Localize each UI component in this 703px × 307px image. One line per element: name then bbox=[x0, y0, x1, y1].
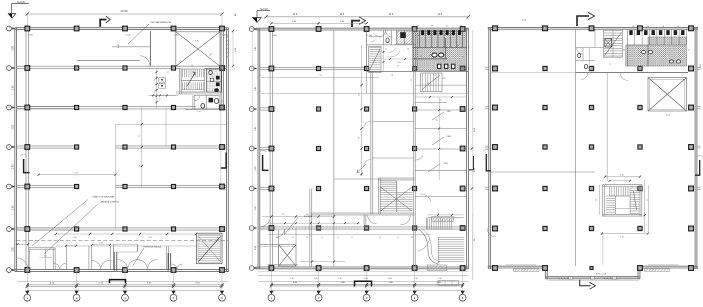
plan 3 central stair left run treads bbox=[606, 195, 615, 197]
svg-text:1.2: 1.2 bbox=[321, 237, 323, 239]
svg-text:3.85: 3.85 bbox=[12, 124, 14, 129]
plan 1 bottom door arcs pair5 bbox=[172, 264, 178, 270]
plan 1 bathroom fixtures bbox=[216, 76, 220, 80]
plan 3 wall stubs left bbox=[485, 67, 489, 69]
plan 2 interior door arcs bottom bbox=[487, 228, 496, 237]
plan 2 entry arrow top bbox=[352, 21, 360, 27]
plan 3 entry arrow top bbox=[577, 16, 589, 26]
svg-text:OFIC.: OFIC. bbox=[443, 163, 449, 165]
plan 2 corridor wall under toilets bbox=[367, 70, 469, 72]
plan 2 lower-left door arc bbox=[276, 230, 284, 238]
plan 3 stair dims bottom bbox=[602, 233, 648, 235]
plan 2 exterior wall top bbox=[256, 27, 469, 29]
plan 2 entry staple mark bbox=[355, 281, 372, 286]
plan 2 corridor west wall bbox=[370, 71, 372, 214]
svg-text:1.4: 1.4 bbox=[407, 49, 409, 51]
plan 2 top-right door arcs bbox=[379, 30, 386, 37]
plan 3 elevator hatch bbox=[605, 39, 612, 47]
plan 3 corridor partition east bbox=[606, 72, 608, 181]
plan 2 bottom-right stairwell lower run bbox=[438, 237, 464, 239]
plan 3 exterior wall top bbox=[488, 26, 698, 28]
plan 3 bay marks bbox=[569, 277, 573, 279]
plan 2 corridor dim bbox=[415, 96, 466, 98]
plan 2 bottom interior dim line bbox=[300, 261, 345, 263]
plan 2 block west wall bbox=[366, 30, 368, 71]
svg-text:5.95: 5.95 bbox=[438, 278, 442, 280]
plan 2 beam stubs left bbox=[260, 107, 275, 109]
plan 2 rooms dim line vertical bbox=[438, 97, 440, 180]
plan 1 duct closet bbox=[159, 78, 166, 83]
svg-text:1.9: 1.9 bbox=[436, 119, 438, 121]
svg-text:2.1: 2.1 bbox=[44, 255, 46, 257]
svg-text:1.9: 1.9 bbox=[191, 65, 193, 67]
svg-text:2.55: 2.55 bbox=[442, 78, 445, 80]
plan 2 stair B bbox=[421, 73, 443, 92]
svg-text:1.2: 1.2 bbox=[337, 237, 339, 239]
svg-text:3.85: 3.85 bbox=[12, 164, 14, 169]
svg-text:0.9: 0.9 bbox=[417, 26, 419, 28]
svg-text:0.8: 0.8 bbox=[662, 26, 664, 28]
plan 2 rooms door arc west wall bbox=[415, 155, 423, 160]
plan 3 bottom colonnade details bbox=[506, 264, 536, 266]
plan 1 door bracket right wall bbox=[221, 153, 226, 169]
plan 1 right colonnade face bbox=[220, 30, 222, 110]
plan 3 stair dims top bbox=[605, 176, 640, 178]
plan 1 top dimension line bbox=[27, 13, 222, 15]
plan 2 sinks bbox=[432, 53, 437, 57]
svg-text:1.2: 1.2 bbox=[420, 56, 422, 58]
svg-text:L-100: L-100 bbox=[174, 35, 179, 37]
plan 2 second level dim bbox=[271, 22, 366, 24]
plan 1 lower-left room bbox=[29, 247, 55, 249]
plan 3 group bbox=[483, 12, 702, 289]
svg-text:0.8: 0.8 bbox=[677, 26, 679, 28]
svg-text:3.8: 3.8 bbox=[359, 137, 361, 140]
plan 1 bottom sub line bbox=[17, 280, 228, 282]
plan 1 bottom door jambs bbox=[113, 252, 115, 271]
plan 3 corridor wall horizontal bbox=[576, 71, 688, 73]
plan 2 bottom right table bbox=[438, 280, 459, 285]
plan 1 entry arrow bbox=[100, 20, 106, 27]
plan 1 exterior wall bottom bbox=[15, 269, 228, 271]
plan 1 bottom-right stair hatched bbox=[197, 233, 223, 264]
plan 1 stair upper block bbox=[181, 69, 204, 92]
plan 1 door dim marks bbox=[92, 244, 110, 246]
plan 1 bottom dimension lines bbox=[27, 284, 222, 286]
plan 1 bottom door arcs pair1 bbox=[54, 263, 60, 269]
plan 2 stair leader bbox=[357, 164, 366, 173]
svg-text:24.50: 24.50 bbox=[121, 9, 128, 13]
plan 2 bottom dimension lines bbox=[271, 283, 462, 285]
plan 3 exterior wall bottom left segment bbox=[488, 265, 547, 267]
plan 1 interior dim line row4 bbox=[39, 174, 116, 176]
svg-text:N.P.T. +0.18: N.P.T. +0.18 bbox=[596, 274, 606, 276]
svg-text:1.1: 1.1 bbox=[167, 72, 169, 74]
plan 3 door bracket left wall bbox=[486, 154, 491, 171]
plan 1 dashed corridor line bbox=[16, 239, 228, 241]
plan 2 group bbox=[249, 9, 496, 301]
plan 3 corridor partition vertical bbox=[575, 29, 577, 266]
svg-text:1.2: 1.2 bbox=[154, 91, 156, 94]
plan 1 top dim extension lines bbox=[26, 14, 28, 26]
svg-text:OFICINA GERENCIA: OFICINA GERENCIA bbox=[150, 21, 171, 24]
plan 1 bottom extension lines bbox=[26, 272, 28, 291]
plan 2 beam row2 bbox=[260, 66, 367, 68]
plan 1 bottom door arcs pair4 bbox=[138, 260, 148, 270]
svg-text:2.05: 2.05 bbox=[397, 62, 400, 64]
plan 2 bath cell hatched bbox=[397, 31, 412, 44]
svg-text:5.95: 5.95 bbox=[364, 278, 368, 280]
plan 2 stairwell door arc bbox=[418, 238, 429, 251]
plan 2 left grid extension line bbox=[251, 29, 253, 268]
plan 2 interior floor line A bbox=[261, 77, 379, 79]
plan 2 interior dim string horizontal bbox=[262, 216, 334, 218]
plan 1 lower-left inner dim bbox=[39, 257, 52, 259]
svg-text:1.2: 1.2 bbox=[379, 237, 381, 239]
plan 1 right wall window ticks bbox=[226, 36, 229, 38]
plan 2 toilet partitions bbox=[413, 47, 467, 49]
plan 1 colonnade wall line bbox=[25, 29, 27, 271]
svg-text:N+0.00: N+0.00 bbox=[17, 1, 25, 4]
plan 1 interior dim row6 bbox=[56, 233, 196, 235]
svg-text:1.2: 1.2 bbox=[351, 237, 353, 239]
plan 2 exterior wall bottom bbox=[256, 266, 469, 268]
plan 1 beam row2 right segment bbox=[205, 65, 227, 67]
svg-text:2.90: 2.90 bbox=[73, 237, 77, 239]
plan 3 central stair walls bbox=[602, 185, 604, 217]
plan 3 columns bbox=[493, 26, 498, 31]
plan 2 top dimension line bbox=[266, 16, 468, 18]
plan 1 partition above stairs bbox=[176, 91, 222, 93]
plan 3 stair dims left bbox=[598, 185, 600, 215]
plan 3 bottom bay inner line bbox=[547, 275, 639, 277]
svg-text:1.2: 1.2 bbox=[306, 237, 308, 239]
plan 1 group bbox=[7, 1, 238, 301]
plan 3 small rooms top-left bbox=[576, 47, 604, 49]
plan 1 office partition vertical bbox=[150, 32, 152, 67]
plan 2 corridor arc bbox=[390, 51, 400, 57]
svg-text:5.95: 5.95 bbox=[314, 278, 318, 280]
svg-text:N+3.42: N+3.42 bbox=[260, 9, 268, 11]
plan 1 lower-left wall dim ticks bbox=[17, 243, 29, 245]
svg-text:4.15: 4.15 bbox=[620, 174, 624, 176]
plan 2 stairwell curved ramp bbox=[419, 229, 439, 264]
plan 2 wc fixtures bbox=[438, 64, 441, 68]
plan 1 interior dim vertical right bbox=[220, 100, 222, 190]
plan 2 corridor wall hatch ticks bbox=[286, 227, 288, 229]
plan 1 exterior wall top bbox=[15, 27, 228, 29]
plan 1 exterior wall left bbox=[14, 28, 16, 272]
svg-text:3.85: 3.85 bbox=[12, 247, 14, 252]
svg-text:2.9: 2.9 bbox=[139, 165, 141, 168]
svg-text:1.3: 1.3 bbox=[392, 74, 394, 76]
plan 1 interior dim vertical mid bbox=[141, 108, 143, 187]
svg-text:1.13: 1.13 bbox=[318, 75, 322, 77]
plan 2 interior dim string vertical bbox=[361, 45, 363, 176]
plan 1 right dim line outside bbox=[232, 31, 234, 66]
plan 2 toilet stalls top-right bbox=[416, 29, 418, 71]
plan 1 bathroom upper hatched bbox=[206, 69, 221, 92]
plan 2 corridor partition vertical bbox=[333, 30, 335, 267]
plan 3 exterior wall left bbox=[488, 27, 490, 269]
plan 2 corridor door arcs west bbox=[364, 121, 371, 128]
plan 3 mid wall horizontal bbox=[491, 171, 595, 173]
plan 1 benchmark symbol bbox=[11, 4, 13, 14]
plan 1 bottom door arcs pair2 bbox=[91, 260, 100, 269]
svg-text:2.9: 2.9 bbox=[689, 49, 691, 51]
plan 2 cells above stair A bbox=[369, 36, 381, 38]
plan 2 columns bbox=[269, 27, 274, 32]
plan 2 bottom-right stairwell top run bbox=[426, 219, 428, 229]
svg-text:0.8: 0.8 bbox=[457, 45, 459, 47]
svg-text:11.3: 11.3 bbox=[438, 13, 443, 16]
svg-text:0.9: 0.9 bbox=[446, 26, 448, 28]
plan 2 bottom grid bubbles bbox=[269, 291, 273, 294]
plan 3 window hatch right bbox=[645, 269, 670, 271]
svg-text:3.85: 3.85 bbox=[12, 45, 14, 50]
svg-text:2.0: 2.0 bbox=[176, 65, 178, 67]
svg-text:L-100: L-100 bbox=[28, 35, 33, 37]
svg-text:3.85: 3.85 bbox=[12, 205, 14, 210]
svg-text:5.95: 5.95 bbox=[290, 278, 294, 280]
plan 2 rooms door arc bbox=[420, 194, 431, 202]
svg-text:2.90: 2.90 bbox=[148, 237, 152, 239]
plan 2 colonnade wall line bbox=[269, 29, 271, 268]
plan 1 shaft x-brace bbox=[176, 32, 220, 66]
svg-text:1.2: 1.2 bbox=[292, 237, 294, 239]
plan 2 bottom partition vertical bbox=[309, 189, 311, 268]
plan 3 wall below stair bbox=[602, 234, 604, 265]
plan 2 mid stair block bbox=[377, 178, 379, 214]
plan 1 bottom door arcs pair3 bbox=[118, 260, 128, 270]
svg-text:PUERTA DE SALIDA: PUERTA DE SALIDA bbox=[143, 246, 162, 249]
plan 1 exit door leader bbox=[133, 248, 145, 266]
plan 1 corridor dim left bbox=[148, 95, 178, 97]
svg-text:11.3: 11.3 bbox=[389, 13, 394, 16]
plan 1 bottom grid bubbles bbox=[25, 291, 29, 294]
svg-text:2.3: 2.3 bbox=[411, 79, 413, 81]
plan 1 right half floor lines bbox=[115, 123, 226, 125]
svg-text:1.95: 1.95 bbox=[197, 111, 201, 113]
svg-text:0.9: 0.9 bbox=[460, 26, 462, 28]
plan 2 right rooms partitions bbox=[415, 84, 466, 86]
plan 2 stairwell dims bbox=[427, 214, 463, 216]
plan 1 columns bbox=[25, 26, 30, 31]
plan 2 interior floor line B bbox=[261, 92, 400, 94]
plan 2 sidewalk lines bbox=[258, 271, 469, 273]
plan 2 benchmark symbol bbox=[256, 11, 258, 18]
plan 3 stair top bbox=[603, 29, 622, 57]
plan 1 door frame box bbox=[113, 244, 137, 252]
plan 1 bottom triangle line bbox=[27, 290, 222, 292]
plan 2 door bracket right wall bbox=[469, 156, 473, 170]
plan 3 central stair arrow bbox=[634, 191, 637, 210]
plan 1 beam row3 segment bbox=[16, 106, 196, 108]
svg-text:4.15: 4.15 bbox=[620, 236, 624, 238]
plan 1 door bracket left colonnade bbox=[24, 159, 30, 173]
plan 2 lower-left leader bbox=[285, 217, 298, 234]
plan 1 bottom staple mark bbox=[110, 280, 126, 284]
plan 1 office wall with door bbox=[77, 59, 140, 61]
plan 3 corridor door arcs bbox=[620, 72, 628, 80]
plan 2 lower-left shaft bbox=[279, 245, 296, 266]
svg-text:BODEGA: BODEGA bbox=[304, 215, 313, 218]
svg-text:L-100: L-100 bbox=[126, 35, 131, 37]
plan 3 sinks bbox=[641, 50, 645, 53]
plan 1 beam rows left bay bbox=[16, 105, 79, 107]
plan 3 central stair right run treads bbox=[630, 187, 639, 189]
plan 3 entrance bay walls bbox=[544, 266, 546, 279]
plan 3 entry arrow bottom bbox=[580, 280, 591, 286]
plan 1 office leader and label bbox=[128, 24, 149, 44]
svg-text:1.2: 1.2 bbox=[397, 237, 399, 239]
svg-text:2.6: 2.6 bbox=[624, 49, 626, 51]
plan 2 block dim specks bbox=[383, 46, 385, 71]
svg-text:0.8: 0.8 bbox=[632, 26, 634, 28]
plan 1 leader lower-left bbox=[32, 200, 88, 247]
plan 3 bay outer line bbox=[547, 280, 639, 282]
svg-text:1.5: 1.5 bbox=[160, 98, 162, 101]
plan 2 wall below corridor bbox=[363, 215, 365, 228]
plan 3 toilet stalls bbox=[626, 29, 628, 66]
svg-text:2.4: 2.4 bbox=[282, 214, 285, 216]
plan 1 grid bubbles left bbox=[7, 26, 12, 31]
plan 2 bottom triangle line bbox=[271, 290, 462, 292]
svg-text:4: 4 bbox=[234, 13, 236, 17]
svg-text:4.35: 4.35 bbox=[195, 41, 199, 43]
plan 2 rooms partition wall bbox=[412, 30, 414, 267]
plan 2 stairwell top hatch bbox=[432, 217, 454, 222]
svg-text:1.2: 1.2 bbox=[411, 237, 413, 239]
plan 2 exterior wall right bbox=[466, 28, 468, 269]
plan 3 central stair top run treads bbox=[609, 187, 611, 196]
plan 3 wall stubs right bbox=[697, 67, 701, 69]
plan 2 left wall door arc row6 bbox=[261, 219, 270, 226]
plan 1 beam row2 full bbox=[16, 65, 181, 67]
svg-text:3.85: 3.85 bbox=[12, 85, 14, 90]
svg-text:0.8: 0.8 bbox=[647, 26, 649, 28]
svg-text:11.3: 11.3 bbox=[293, 13, 298, 16]
svg-text:1.1: 1.1 bbox=[385, 49, 387, 51]
plan 2 door bracket left wall bbox=[263, 155, 269, 170]
plan 2 bottom sub line bbox=[258, 280, 469, 282]
svg-text:1.2: 1.2 bbox=[609, 64, 611, 66]
plan 2 exterior wall left bbox=[257, 28, 259, 269]
svg-text:3.0: 3.0 bbox=[596, 199, 598, 202]
svg-text:CUARTO DE MAQUINAS: CUARTO DE MAQUINAS bbox=[92, 196, 116, 199]
plan 3 central stair well bbox=[615, 196, 630, 208]
svg-text:2.3: 2.3 bbox=[139, 135, 141, 138]
plan 1 stair dim column bbox=[156, 69, 158, 109]
plan 3 window hatch left bbox=[514, 269, 540, 271]
svg-text:5.95: 5.95 bbox=[338, 278, 342, 280]
svg-text:1.2: 1.2 bbox=[154, 79, 156, 82]
svg-text:4.4: 4.4 bbox=[474, 239, 476, 242]
plan 2 right rooms leaders bbox=[432, 112, 444, 120]
svg-text:2.1: 2.1 bbox=[397, 66, 399, 68]
plan 1 corridor beam row6 bbox=[16, 227, 226, 229]
plan 1 bottom partitions bbox=[88, 246, 90, 270]
svg-text:OFIC.: OFIC. bbox=[446, 111, 452, 113]
plan 1 stair left wall bbox=[178, 69, 180, 94]
plan 1 bathroom lower bbox=[194, 95, 219, 108]
svg-text:4.45: 4.45 bbox=[118, 44, 120, 48]
plan 2 stairwell bottom hatch bbox=[427, 265, 446, 271]
svg-text:AREA DE CONTROL: AREA DE CONTROL bbox=[100, 201, 120, 204]
svg-text:0.9: 0.9 bbox=[222, 100, 224, 103]
plan 3 door bracket right wall bbox=[695, 160, 700, 175]
plan 2 right dim line bbox=[472, 30, 474, 280]
plan 2 lower-left walls bbox=[268, 264, 298, 266]
plan 3 exterior wall bottom right segment bbox=[639, 265, 698, 267]
plan 2 cells top bbox=[383, 30, 385, 45]
plan 3 x-brace shaft bbox=[648, 78, 687, 112]
svg-text:L-100: L-100 bbox=[367, 35, 372, 37]
svg-text:0.9: 0.9 bbox=[387, 56, 389, 58]
svg-text:1.86: 1.86 bbox=[99, 243, 103, 245]
plan 1 office door arc bbox=[140, 56, 150, 66]
plan 1 exterior wall right bbox=[226, 28, 228, 272]
plan 3 exterior wall right bbox=[694, 27, 696, 269]
plan 2 toilet block hatch base bbox=[413, 31, 467, 71]
plan 1 lower-left door arc bbox=[16, 258, 28, 270]
plan 2 bottom extension lines bbox=[270, 269, 272, 291]
plan 2 corridor line bbox=[367, 92, 469, 94]
svg-text:5.95: 5.95 bbox=[388, 278, 392, 280]
plan 2 corridor walls bottom bbox=[268, 234, 431, 236]
svg-text:0.9: 0.9 bbox=[431, 26, 433, 28]
plan 3 stair dims right bbox=[644, 180, 646, 233]
plan 2 corridor wall mid bbox=[311, 212, 415, 214]
plan 2 corridor door arcs bbox=[401, 215, 411, 225]
svg-text:OFIC.: OFIC. bbox=[446, 136, 452, 138]
plan 3 bay wall ticks bbox=[558, 278, 560, 280]
plan 3 toilet floor hatch bbox=[648, 37, 687, 66]
plan 1 office beam bbox=[112, 46, 151, 48]
plan 2 grid bubbles left bbox=[249, 27, 254, 32]
plan 2 corridor cross walls bbox=[372, 121, 415, 123]
svg-text:L-100: L-100 bbox=[272, 35, 277, 37]
svg-text:11.3: 11.3 bbox=[340, 13, 345, 16]
svg-text:3.8: 3.8 bbox=[359, 94, 361, 97]
plan 2 stair A bbox=[369, 46, 381, 72]
svg-text:1.6: 1.6 bbox=[463, 56, 465, 58]
plan 2 interior dim above row6 bbox=[268, 222, 360, 224]
plan 2 corridor row6 beam bbox=[260, 226, 467, 228]
